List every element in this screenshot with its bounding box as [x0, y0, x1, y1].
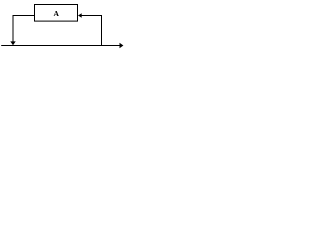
arrowhead: down arrow onto bottom rail — [10, 41, 15, 45]
arrowhead: input arrow into box right edge — [78, 13, 82, 17]
arrowhead: output arrow at right end of rail — [120, 43, 124, 48]
amplifier block A (box outline) — [35, 5, 78, 22]
svg-text:A: A — [53, 9, 59, 18]
wire: output stub from box left side, corner, and vertical drop — [13, 16, 35, 43]
wire: feedback wire from rail up and into box right side — [81, 16, 101, 46]
wire: bottom rail — [1, 45, 120, 47]
